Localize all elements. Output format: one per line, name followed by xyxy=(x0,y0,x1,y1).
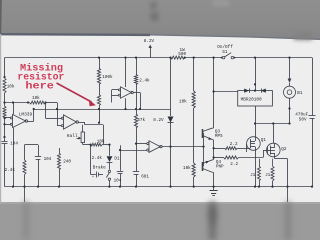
svg-text:10k: 10k xyxy=(7,85,15,90)
svg-text:here: here xyxy=(25,80,53,92)
svg-text:104: 104 xyxy=(44,157,52,162)
svg-text:10k: 10k xyxy=(183,166,191,171)
svg-text:10k: 10k xyxy=(97,139,105,144)
svg-text:Q1: Q1 xyxy=(261,138,267,143)
svg-text:8.2V: 8.2V xyxy=(144,39,155,44)
svg-text:LM339: LM339 xyxy=(19,111,33,117)
svg-text:PNP: PNP xyxy=(216,165,224,170)
svg-text:Hall: Hall xyxy=(67,133,78,139)
svg-text:D1: D1 xyxy=(114,156,120,161)
svg-text:2.4k: 2.4k xyxy=(139,78,150,83)
svg-text:104: 104 xyxy=(10,142,18,147)
svg-text:2.2: 2.2 xyxy=(230,142,238,147)
svg-text:B1: B1 xyxy=(297,91,303,96)
svg-text:47k: 47k xyxy=(137,118,145,123)
svg-text:MPS: MPS xyxy=(215,134,223,139)
svg-text:2.4k: 2.4k xyxy=(92,156,103,161)
svg-text:J1: J1 xyxy=(265,174,270,178)
svg-text:Q2: Q2 xyxy=(281,147,287,152)
svg-text:10k: 10k xyxy=(179,100,187,105)
svg-text:240: 240 xyxy=(63,159,71,164)
svg-text:104: 104 xyxy=(114,178,122,183)
svg-text:S1: S1 xyxy=(222,50,228,55)
svg-text:2.2: 2.2 xyxy=(230,162,238,167)
svg-text:681: 681 xyxy=(141,175,149,180)
svg-text:+: + xyxy=(92,176,94,180)
svg-text:J1: J1 xyxy=(250,174,255,178)
svg-text:MBR20100: MBR20100 xyxy=(241,98,262,103)
svg-text:On/Off: On/Off xyxy=(217,45,233,50)
svg-text:8.2V: 8.2V xyxy=(153,118,164,123)
svg-text:100k: 100k xyxy=(102,75,113,80)
svg-text:500: 500 xyxy=(178,52,186,57)
svg-text:10k: 10k xyxy=(32,96,40,101)
svg-text:2.4k: 2.4k xyxy=(5,168,16,173)
svg-text:50V: 50V xyxy=(299,117,307,122)
svg-text:Brake: Brake xyxy=(93,166,106,171)
